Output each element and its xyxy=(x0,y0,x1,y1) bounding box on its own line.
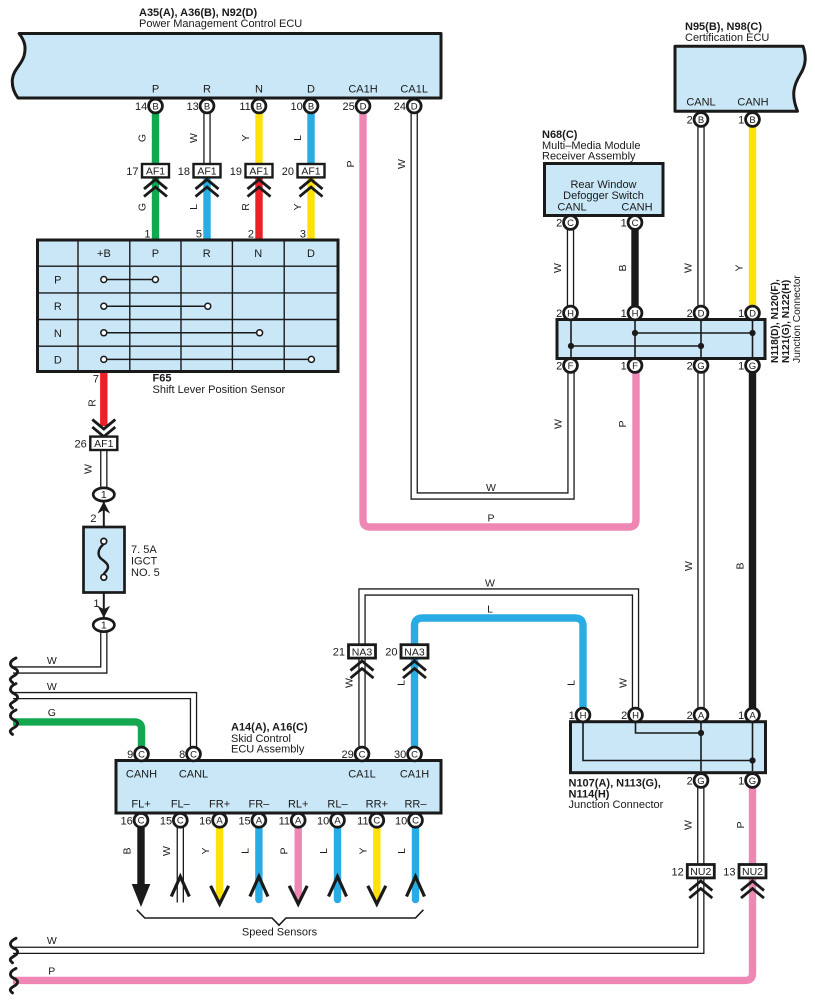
connector AF1-20 xyxy=(282,164,325,178)
wire G from ECU pin 14 to connector AF1-17 xyxy=(152,110,159,165)
svg-text:CANH: CANH xyxy=(737,97,768,109)
speed sensor wire FR+ (Y) xyxy=(216,827,223,897)
svg-text:ECU Assembly: ECU Assembly xyxy=(231,744,305,756)
wire L from skid ECU pin 30 CA1H via NA3-20 to junction N107 pin 1H xyxy=(415,618,584,748)
junction N107 pin 1(G) xyxy=(738,774,759,788)
svg-text:B: B xyxy=(617,264,629,271)
svg-text:RR–: RR– xyxy=(404,799,427,811)
svg-text:26: 26 xyxy=(75,438,87,450)
junction N118 CANH bus xyxy=(635,332,753,334)
svg-text:CANH: CANH xyxy=(621,202,652,214)
svg-text:D: D xyxy=(749,308,756,319)
svg-text:G: G xyxy=(137,203,149,211)
svg-text:W: W xyxy=(618,678,630,688)
N68(C) Multi-Media Module Receiver Assembly / Rear Window Defogger Switch xyxy=(545,164,664,216)
svg-text:L: L xyxy=(487,604,493,616)
junction N118 pin 1(H) xyxy=(621,306,642,320)
wire W from ECU pin 13 to connector AF1-18 xyxy=(203,110,210,165)
wire B from junction N118 pin 1G to junction N107 pin 1A xyxy=(749,368,756,710)
wire L from AF1-18 to F65 pin 5 xyxy=(203,177,210,240)
svg-text:11: 11 xyxy=(357,815,368,827)
svg-text:L: L xyxy=(318,848,330,854)
skid ECU pin 10(C) xyxy=(395,813,422,827)
svg-text:29: 29 xyxy=(342,749,354,761)
svg-text:Y: Y xyxy=(734,264,746,271)
svg-text:2: 2 xyxy=(687,361,693,373)
skid ECU pin 30(C) CA1H xyxy=(394,747,421,761)
junction N118 pin 2(F) xyxy=(556,359,577,373)
svg-text:P: P xyxy=(279,847,291,854)
wire W from Certification ECU pin 2B to junction connector pin 2D xyxy=(697,126,704,310)
wire-break symbol for G wire xyxy=(10,710,17,735)
connector AF1-19 xyxy=(230,164,273,178)
skid ECU pin 10(A) xyxy=(317,813,344,827)
ECU pin 24(D) CA1L xyxy=(394,99,421,113)
svg-text:14: 14 xyxy=(135,101,147,113)
svg-text:Power Management Control ECU: Power Management Control ECU xyxy=(139,18,302,30)
svg-text:10: 10 xyxy=(291,101,303,113)
F65 switch contact row N xyxy=(107,332,257,334)
connector AF1-17 xyxy=(126,164,169,178)
svg-text:1: 1 xyxy=(101,489,107,501)
svg-text:2: 2 xyxy=(556,218,562,230)
wire Y from Certification ECU pin 1B to junction connector pin 1D xyxy=(749,126,756,310)
svg-text:B: B xyxy=(749,115,755,126)
svg-text:B: B xyxy=(698,115,704,126)
svg-text:L: L xyxy=(188,204,200,210)
svg-text:2: 2 xyxy=(90,513,96,525)
Certification ECU pin 2(B) xyxy=(687,113,708,127)
svg-text:1: 1 xyxy=(93,598,99,610)
svg-text:1: 1 xyxy=(621,308,627,320)
svg-text:IGCT: IGCT xyxy=(131,556,158,568)
junction N118 CANL bus xyxy=(571,345,701,347)
svg-text:10: 10 xyxy=(317,815,329,827)
svg-text:P: P xyxy=(48,966,55,978)
svg-text:B: B xyxy=(152,101,158,112)
skid ECU pin 11(A) xyxy=(279,813,306,827)
svg-text:1: 1 xyxy=(738,710,744,722)
wire R from AF1-19 to F65 pin 2 xyxy=(255,177,262,240)
svg-text:20: 20 xyxy=(282,166,294,178)
wire into fuse (pin 2) xyxy=(103,500,105,541)
svg-text:D: D xyxy=(360,101,367,112)
svg-text:H: H xyxy=(632,710,639,721)
Certification ECU N95(B), N98(C) xyxy=(675,46,805,111)
svg-text:W: W xyxy=(47,655,57,667)
speed sensor wire RR- (L) xyxy=(412,827,419,900)
wire W from junction N107 pin 2G to connector NU2-12 and bottom rail xyxy=(697,788,704,864)
junction N107 pin 1(A) xyxy=(738,708,759,722)
svg-text:W: W xyxy=(344,678,356,688)
junction N107 pin 2(H) xyxy=(621,708,642,722)
svg-text:L: L xyxy=(239,848,251,854)
wire Y from AF1-20 to F65 pin 3 xyxy=(307,177,314,240)
ECU pin 25(D) CA1H xyxy=(343,99,370,113)
svg-text:13: 13 xyxy=(723,866,735,878)
junction N118 pin 1(F) xyxy=(621,359,642,373)
skid ECU pin 16(A) xyxy=(199,813,226,827)
svg-text:24: 24 xyxy=(394,101,406,113)
svg-text:19: 19 xyxy=(230,166,242,178)
junction N118 pin 2(D) xyxy=(687,306,708,320)
svg-text:1: 1 xyxy=(738,308,744,320)
svg-text:G: G xyxy=(697,776,704,787)
wire R from F65 pin 7 to connector AF1-26 xyxy=(100,372,107,427)
wire G from AF1-17 to F65 pin 1 xyxy=(152,177,159,240)
svg-text:N118(D), N120(F),: N118(D), N120(F), xyxy=(770,279,781,363)
svg-text:C: C xyxy=(411,749,418,760)
wire Y from ECU pin 11 to connector AF1-19 xyxy=(255,110,262,165)
svg-text:RL–: RL– xyxy=(327,799,348,811)
svg-text:12: 12 xyxy=(672,866,684,878)
svg-text:17: 17 xyxy=(126,166,138,178)
svg-text:G: G xyxy=(749,776,756,787)
svg-text:CANL: CANL xyxy=(179,769,208,781)
svg-text:1: 1 xyxy=(101,620,107,632)
svg-text:Speed Sensors: Speed Sensors xyxy=(242,927,318,939)
Junction Connector N118(D), N120(F), N121(G), N122(H) xyxy=(557,320,765,359)
skid ECU pin 8(C) CANL xyxy=(179,747,200,761)
svg-text:L: L xyxy=(292,135,304,141)
svg-text:B: B xyxy=(256,101,262,112)
speed sensor wire FL- (W) xyxy=(177,827,184,903)
wire P (pink) from ECU pin 25 CA1H to junction connector pin 1F xyxy=(363,110,636,527)
svg-text:A: A xyxy=(334,816,341,827)
connector NU2-13 xyxy=(723,865,766,879)
svg-text:C: C xyxy=(632,218,639,229)
svg-text:Y: Y xyxy=(240,134,252,141)
svg-text:2: 2 xyxy=(621,710,627,722)
ECU pin 11(B) xyxy=(239,99,266,113)
wire W from ECU pin 24 CA1L to junction connector pin 2F xyxy=(414,110,571,496)
svg-text:NA3: NA3 xyxy=(404,646,425,658)
svg-text:P: P xyxy=(735,821,747,828)
svg-text:7. 5A: 7. 5A xyxy=(131,544,157,556)
svg-text:G: G xyxy=(749,361,756,372)
connector AF1-26 xyxy=(92,420,115,437)
speed sensor wire RL+ (P) xyxy=(295,827,302,897)
svg-text:W: W xyxy=(553,419,565,429)
junction N118 pin 1(G) xyxy=(738,359,759,373)
svg-text:Shift Lever Position Sensor: Shift Lever Position Sensor xyxy=(153,384,286,396)
Junction Connector N107(A), N113(G), N114(H) xyxy=(571,722,766,773)
wire W from left edge to skid ECU pin 8 CANL xyxy=(13,696,194,748)
Power Management Control ECU A35(A), A36(B), N92(D) xyxy=(12,34,441,99)
svg-text:D: D xyxy=(307,248,315,260)
wire W from AF1-26 to fuse connector oval 1 xyxy=(100,450,107,489)
F65 switch contact row R xyxy=(107,305,205,307)
svg-text:8: 8 xyxy=(179,749,185,761)
wire G from left edge to skid ECU pin 9 CANH xyxy=(13,722,142,748)
svg-text:16: 16 xyxy=(199,815,211,827)
svg-text:RL+: RL+ xyxy=(288,799,309,811)
svg-text:Receiver Assembly: Receiver Assembly xyxy=(542,151,636,163)
svg-text:H: H xyxy=(567,308,574,319)
skid ECU pin 15(C) xyxy=(160,813,187,827)
wire W from fuse oval to left edge xyxy=(13,631,104,670)
svg-text:18: 18 xyxy=(178,166,190,178)
svg-text:Y: Y xyxy=(357,847,369,854)
svg-text:C: C xyxy=(359,749,366,760)
wire L from ECU pin 10 to connector AF1-20 xyxy=(307,110,314,165)
svg-text:B: B xyxy=(204,101,210,112)
svg-text:10: 10 xyxy=(395,815,407,827)
connector AF1-18 xyxy=(178,164,221,178)
wire-break symbol for W wire xyxy=(10,658,17,683)
svg-text:R: R xyxy=(203,84,211,96)
svg-text:H: H xyxy=(632,308,639,319)
svg-text:CANL: CANL xyxy=(557,202,586,214)
svg-text:B: B xyxy=(735,562,747,569)
svg-text:P: P xyxy=(152,248,159,260)
svg-text:2: 2 xyxy=(687,115,693,127)
wire-break symbol for bottom P rail xyxy=(10,968,17,993)
connector NA3-20 xyxy=(385,645,428,659)
svg-text:H: H xyxy=(580,710,587,721)
svg-text:NU2: NU2 xyxy=(742,866,763,878)
connector NU2-12 xyxy=(672,865,715,879)
svg-text:Junction Connector: Junction Connector xyxy=(792,275,803,363)
svg-text:2: 2 xyxy=(687,710,693,722)
svg-text:A14(A), A16(C): A14(A), A16(C) xyxy=(231,722,308,734)
svg-text:AF1: AF1 xyxy=(94,438,113,450)
svg-text:F: F xyxy=(568,361,574,372)
skid ECU pin 11(C) xyxy=(357,813,384,827)
ECU pin 14(B) xyxy=(135,99,162,113)
speed sensor wire RR+ (Y) xyxy=(373,827,380,897)
svg-text:30: 30 xyxy=(394,749,406,761)
svg-text:C: C xyxy=(138,816,145,827)
svg-text:2: 2 xyxy=(556,308,562,320)
fuse 7.5A IGCT NO.5 xyxy=(84,527,125,593)
svg-text:2: 2 xyxy=(687,776,693,788)
speed sensor wire FL+ (B) xyxy=(137,827,144,888)
svg-text:1: 1 xyxy=(738,776,744,788)
svg-text:D: D xyxy=(411,101,418,112)
wire B from N68 pin 1C to junction connector pin 1H xyxy=(631,228,638,310)
svg-text:NU2: NU2 xyxy=(690,866,711,878)
svg-text:W: W xyxy=(485,578,495,590)
skid ECU pin 15(A) xyxy=(238,813,265,827)
svg-text:15: 15 xyxy=(238,815,250,827)
svg-text:A: A xyxy=(698,710,705,721)
svg-text:W: W xyxy=(47,935,57,947)
svg-text:+B: +B xyxy=(97,248,111,260)
svg-text:2: 2 xyxy=(687,308,693,320)
svg-text:AF1: AF1 xyxy=(249,166,268,178)
fuse connector oval 1 (top) xyxy=(93,488,114,501)
svg-text:P: P xyxy=(152,84,159,96)
svg-text:1: 1 xyxy=(621,361,627,373)
svg-text:D: D xyxy=(54,354,62,366)
svg-text:P: P xyxy=(617,420,629,427)
svg-text:L: L xyxy=(396,848,408,854)
svg-text:25: 25 xyxy=(343,101,355,113)
junction N118 pin 2(G) xyxy=(687,359,708,373)
F65 Shift Lever Position Sensor switch table xyxy=(38,240,339,372)
svg-text:7: 7 xyxy=(93,374,99,386)
svg-text:A: A xyxy=(256,816,263,827)
wire W from skid ECU pin 29 CA1L via NA3-21 to junction N107 pin 2H xyxy=(362,592,636,748)
svg-text:11: 11 xyxy=(239,101,250,113)
speed sensor wire RL- (L) xyxy=(334,827,341,900)
svg-text:NA3: NA3 xyxy=(352,646,373,658)
wire P from junction N107 pin 1G to connector NU2-13 and bottom rail xyxy=(749,788,756,864)
svg-text:D: D xyxy=(307,84,315,96)
svg-text:CA1H: CA1H xyxy=(400,769,429,781)
Certification ECU pin 1(B) xyxy=(738,113,759,127)
svg-text:Junction Connector: Junction Connector xyxy=(569,799,664,811)
svg-text:11: 11 xyxy=(279,815,290,827)
N68 pin 1(C) xyxy=(621,216,642,230)
svg-text:B: B xyxy=(122,847,134,854)
wire W from N68 pin 2C to junction connector pin 2H xyxy=(567,228,574,310)
svg-text:CA1H: CA1H xyxy=(348,84,377,96)
svg-text:C: C xyxy=(567,218,574,229)
svg-text:P: P xyxy=(345,160,357,167)
skid ECU pin 9(C) CANH xyxy=(127,747,148,761)
svg-text:W: W xyxy=(83,464,95,474)
svg-text:Certification ECU: Certification ECU xyxy=(685,32,769,44)
svg-text:Defogger Switch: Defogger Switch xyxy=(563,190,644,202)
svg-text:A: A xyxy=(216,816,223,827)
ECU pin 13(B) xyxy=(187,99,214,113)
svg-text:FR+: FR+ xyxy=(209,799,230,811)
svg-text:L: L xyxy=(566,680,578,686)
svg-text:16: 16 xyxy=(121,815,133,827)
junction N118 pin 1(D) xyxy=(738,306,759,320)
svg-text:N: N xyxy=(254,248,262,260)
svg-text:FL+: FL+ xyxy=(131,799,150,811)
svg-text:Y: Y xyxy=(200,847,212,854)
svg-text:W: W xyxy=(396,159,408,169)
wire-break symbol for bottom W rail xyxy=(10,938,17,963)
Skid Control ECU Assembly A14(A), A16(C) xyxy=(116,761,441,814)
svg-text:F: F xyxy=(632,361,638,372)
svg-text:AF1: AF1 xyxy=(301,166,320,178)
svg-text:15: 15 xyxy=(160,815,172,827)
svg-text:D: D xyxy=(698,308,705,319)
connector NA3-21 xyxy=(333,645,376,659)
brace for speed sensors xyxy=(137,910,424,925)
speed sensor wire FR- (L) xyxy=(255,827,262,900)
svg-text:A: A xyxy=(749,710,756,721)
svg-text:CA1L: CA1L xyxy=(400,84,428,96)
svg-text:CANH: CANH xyxy=(126,769,157,781)
svg-text:13: 13 xyxy=(187,101,199,113)
svg-text:A: A xyxy=(295,816,302,827)
svg-text:AF1: AF1 xyxy=(197,166,216,178)
svg-text:C: C xyxy=(412,816,419,827)
F65 switch contact row P xyxy=(107,279,153,281)
svg-text:G: G xyxy=(137,134,149,142)
svg-text:W: W xyxy=(161,846,173,856)
junction N118 pin 2(H) xyxy=(556,306,577,320)
svg-text:1: 1 xyxy=(738,115,744,127)
svg-text:F65: F65 xyxy=(153,373,172,385)
svg-text:2: 2 xyxy=(556,361,562,373)
svg-text:L: L xyxy=(396,680,408,686)
svg-text:9: 9 xyxy=(127,749,133,761)
svg-text:R: R xyxy=(87,399,99,407)
svg-text:P: P xyxy=(54,275,61,287)
svg-text:RR+: RR+ xyxy=(366,799,388,811)
svg-text:Y: Y xyxy=(292,203,304,210)
wire W from junction N118 pin 2G to junction N107 pin 2A xyxy=(697,368,704,710)
svg-text:C: C xyxy=(373,816,380,827)
wire out of fuse (pin 1) xyxy=(103,577,105,619)
F65 switch contact row D xyxy=(107,358,309,360)
svg-text:AF1: AF1 xyxy=(146,166,165,178)
N68 pin 2(C) xyxy=(556,216,577,230)
skid ECU pin 16(C) xyxy=(121,813,148,827)
svg-text:G: G xyxy=(697,361,704,372)
wire-break symbol for W wire 2 xyxy=(10,684,17,709)
junction N107 pin 1(H) xyxy=(569,708,590,722)
svg-text:R: R xyxy=(240,203,252,211)
svg-text:NO. 5: NO. 5 xyxy=(131,567,160,579)
svg-text:FR–: FR– xyxy=(249,799,271,811)
svg-text:W: W xyxy=(683,263,695,273)
svg-text:N121(G), N122(H): N121(G), N122(H) xyxy=(781,280,792,363)
svg-text:W: W xyxy=(188,133,200,143)
svg-text:1: 1 xyxy=(738,361,744,373)
svg-text:W: W xyxy=(47,681,57,693)
svg-text:B: B xyxy=(308,101,314,112)
junction N107 pin 2(G) xyxy=(687,774,708,788)
svg-text:N: N xyxy=(54,328,62,340)
svg-text:R: R xyxy=(203,248,211,260)
svg-text:FL–: FL– xyxy=(171,799,191,811)
svg-text:20: 20 xyxy=(385,647,397,659)
svg-text:C: C xyxy=(138,749,145,760)
junction N107 pin 2(A) xyxy=(687,708,708,722)
svg-text:C: C xyxy=(177,816,184,827)
svg-text:G: G xyxy=(48,707,56,719)
ECU pin 10(B) xyxy=(291,99,318,113)
svg-text:C: C xyxy=(190,749,197,760)
skid ECU pin 29(C) CA1L xyxy=(342,747,369,761)
svg-text:W: W xyxy=(486,482,496,494)
fuse connector oval 1 (bottom) xyxy=(93,618,114,631)
svg-text:1: 1 xyxy=(569,710,575,722)
svg-text:CANL: CANL xyxy=(686,97,715,109)
svg-text:CA1L: CA1L xyxy=(348,769,376,781)
svg-text:R: R xyxy=(54,301,62,313)
svg-text:1: 1 xyxy=(621,218,627,230)
svg-text:W: W xyxy=(552,263,564,273)
svg-text:N: N xyxy=(255,84,263,96)
svg-text:W: W xyxy=(683,820,695,830)
svg-text:P: P xyxy=(487,513,494,525)
svg-text:W: W xyxy=(683,561,695,571)
svg-text:21: 21 xyxy=(333,647,345,659)
